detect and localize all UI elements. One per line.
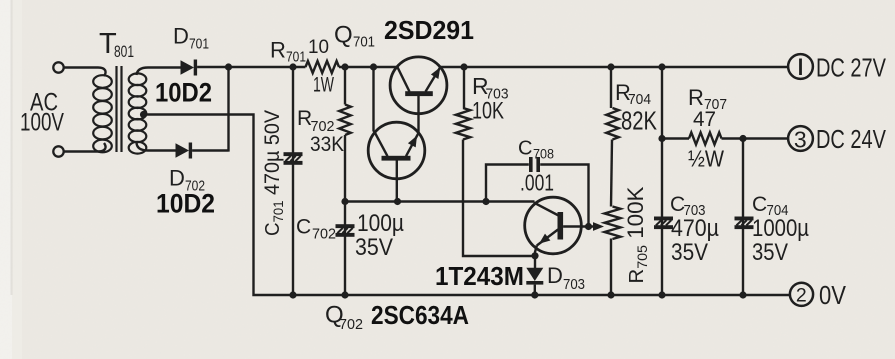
junction top rail x373 (Q702 collector) [370, 63, 377, 70]
junction node x486 (C708) [482, 198, 489, 205]
junction R707 wire x662 [658, 135, 665, 142]
diode D702 [176, 143, 190, 157]
terminal 2 (0V) [790, 283, 813, 306]
wire R703 bottom to zener node [463, 140, 535, 257]
capacitor C703 (470u 35V) [654, 217, 673, 221]
junction emitter/R703 node [531, 252, 538, 259]
transistor Q703 (error amp) [525, 197, 582, 254]
capacitor C701 (470u 50V) [284, 152, 303, 156]
resistor R702 (33K) [339, 105, 351, 136]
wire R707 to terminal 3 [722, 137, 789, 139]
svg-text:0V: 0V [819, 282, 846, 310]
R705 wiper arrow [593, 222, 604, 231]
svg-text:708: 708 [533, 147, 554, 162]
svg-text:D: D [547, 263, 563, 288]
svg-text:C: C [752, 193, 767, 216]
svg-text:½W: ½W [688, 146, 724, 172]
wire AC bottom to transformer [63, 150, 98, 152]
svg-text:D: D [173, 24, 189, 49]
svg-text:701: 701 [189, 37, 209, 53]
wire R704 to R705 [611, 140, 612, 207]
svg-text:100µ: 100µ [357, 210, 404, 237]
junction node x397 (Q702 base) [394, 198, 401, 205]
zener diode D703 (1T243M) [526, 268, 543, 281]
svg-text:470µ: 470µ [671, 215, 719, 242]
svg-text:2SD291: 2SD291 [384, 17, 474, 45]
svg-text:1000µ: 1000µ [752, 215, 809, 242]
svg-text:DC 27V: DC 27V [816, 55, 886, 83]
svg-text:10D2: 10D2 [155, 78, 212, 108]
wire C708 right leg [540, 165, 588, 227]
svg-text:R: R [270, 38, 286, 63]
wire Q703 base to R705 wiper [563, 225, 596, 227]
junction right rail x464 (R703) [460, 63, 467, 70]
junction bottom rail x611 [607, 291, 614, 298]
transistor Q702 (driver) [368, 122, 425, 179]
wire R703 top [463, 67, 465, 108]
junction bottom rail x293 [289, 291, 296, 298]
wire Q701 base to Q702 emitter [417, 96, 419, 133]
wire R704 top [610, 67, 612, 108]
wire secondary top to D701 [148, 66, 181, 68]
junction bottom rail x345 [341, 291, 348, 298]
junction bottom rail x743 [739, 291, 746, 298]
wire C703 branch [661, 67, 663, 295]
transformer core [115, 66, 117, 152]
svg-text:R: R [688, 85, 704, 110]
svg-text:702: 702 [312, 226, 336, 243]
svg-text:47: 47 [693, 108, 716, 131]
svg-text:10K: 10K [472, 98, 504, 125]
junction rail x662 (C703) [658, 63, 665, 70]
AC source terminal top [53, 62, 63, 72]
wire D701 cathode to R701 [197, 66, 305, 68]
capacitor C702 (100u 35V) [336, 224, 355, 228]
svg-text:R705 100K: R705 100K [623, 186, 650, 283]
svg-text:3: 3 [794, 126, 807, 152]
svg-text:35V: 35V [671, 239, 708, 266]
wire C708 left leg [486, 165, 529, 202]
wire R705 bottom [610, 239, 612, 296]
resistor R701 (10 ohm 1W, series in rail) [306, 61, 340, 73]
node line (Q702 base node) [345, 200, 535, 202]
wire rail to R707 [662, 137, 689, 139]
svg-text:35V: 35V [355, 234, 393, 261]
resistor R707 (47 half-watt) [689, 133, 722, 145]
wire R702 top [344, 67, 346, 105]
junction bottom rail x662 [658, 291, 665, 298]
terminal 1 (DC 27V) [788, 54, 813, 79]
svg-text:C: C [296, 216, 311, 239]
junction top rail x229 [225, 63, 232, 70]
svg-text:703: 703 [563, 277, 585, 293]
wire C704 branch [742, 139, 744, 296]
secondary center tap node [140, 111, 147, 118]
junction bottom rail x535 [531, 291, 538, 298]
wire R702 bottom to node [344, 135, 346, 295]
svg-text:1T243M: 1T243M [435, 261, 524, 291]
junction C704 [739, 135, 746, 142]
diode D701 [181, 60, 195, 74]
transistor Q701 (2SD291 pass transistor) [390, 57, 447, 114]
wire D702 cathode riser to top rail [192, 67, 228, 152]
wire AC top to transformer [63, 66, 98, 68]
capacitor C708 (.001) [529, 157, 533, 172]
svg-text:10D2: 10D2 [156, 189, 215, 219]
resistor R704 (82K) [606, 108, 618, 140]
svg-text:701: 701 [353, 34, 375, 51]
svg-text:100V: 100V [20, 109, 64, 137]
svg-text:10: 10 [308, 36, 329, 58]
svg-text:C: C [518, 138, 532, 160]
svg-text:35V: 35V [752, 239, 788, 266]
junction rail x611 (R704) [607, 63, 614, 70]
terminal 3 (DC 24V) [788, 126, 813, 151]
wire center tap to bottom rail [144, 115, 791, 296]
svg-text:.001: .001 [520, 170, 554, 196]
svg-text:33K: 33K [310, 132, 345, 156]
svg-text:82K: 82K [621, 106, 658, 136]
wire C701 branch [292, 67, 294, 295]
potentiometer R705 (100K) [605, 207, 621, 240]
capacitor C704 (1000u 35V) [735, 217, 754, 221]
junction node x345 [341, 198, 348, 205]
wire R701 to Q701 [339, 66, 398, 68]
junction C708/base [585, 223, 592, 230]
wire Q702 collector riser [372, 67, 374, 132]
svg-text:Q: Q [334, 22, 353, 49]
wire Q703 emitter to D703 [535, 246, 537, 269]
svg-text:D: D [169, 166, 185, 191]
transformer T801 secondary winding [137, 68, 149, 76]
svg-text:2SC634A: 2SC634A [371, 302, 469, 330]
svg-text:1W: 1W [313, 74, 334, 97]
wire Q702 base lead [396, 160, 398, 201]
resistor R703 (10K) [456, 108, 470, 140]
svg-text:DC 24V: DC 24V [816, 126, 886, 154]
wire secondary bottom to D702 [148, 149, 176, 151]
transformer T801 primary winding [98, 68, 106, 77]
output rail (emitter side) [440, 66, 788, 68]
svg-text:702: 702 [339, 316, 363, 333]
svg-text:801: 801 [114, 42, 134, 61]
junction top rail x293 (C701) [289, 63, 296, 70]
svg-text:701: 701 [286, 50, 306, 66]
AC source terminal bottom [53, 146, 63, 156]
svg-text:2: 2 [796, 284, 807, 306]
junction top rail x345 (R702) [341, 63, 348, 70]
